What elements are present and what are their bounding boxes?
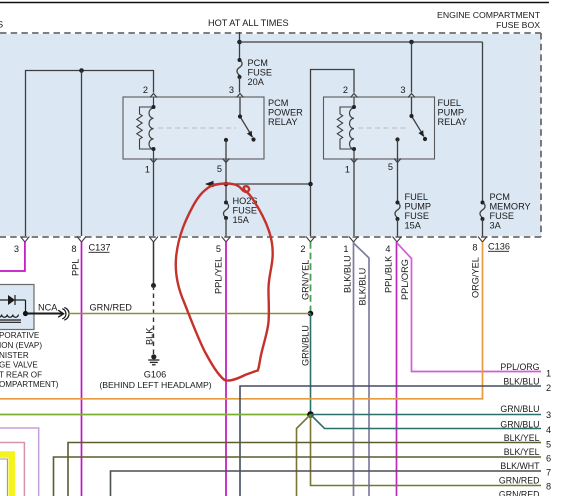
wire violet elbow lower left (0, 428, 39, 496)
wire BLK/YEL row 6 (54, 457, 542, 496)
svg-text:5: 5 (388, 162, 393, 172)
svg-text:8: 8 (472, 243, 477, 253)
svg-text:ORG/YEL: ORG/YEL (471, 257, 481, 298)
wire GRN/RED to EVAP junction (68, 313, 311, 315)
node: main junction (307, 411, 314, 418)
svg-text:15A: 15A (405, 221, 422, 231)
svg-text:NISTER: NISTER (0, 351, 29, 360)
svg-text:1: 1 (345, 165, 350, 175)
svg-text:BLK/BLU: BLK/BLU (343, 255, 353, 293)
svg-text:GRN/BLU: GRN/BLU (500, 420, 539, 430)
pin labels C137 row (14, 244, 221, 254)
svg-text:BLK/BLU: BLK/BLU (358, 268, 368, 306)
diode in purge valve (0, 295, 26, 314)
svg-text:PUMP: PUMP (405, 202, 432, 212)
wire: feed to PCM memory fuse (482, 42, 484, 203)
relay linkage dashed PCM (158, 127, 236, 129)
hot at all times bus line (0, 2, 549, 4)
connector C137 (89, 243, 111, 253)
svg-text:PCM: PCM (268, 98, 288, 108)
svg-text:2: 2 (343, 85, 348, 95)
svg-text:2: 2 (300, 244, 305, 254)
svg-text:5: 5 (217, 164, 222, 174)
evap purge valve caption (0, 331, 59, 389)
wire GRN/YEL dashed C136 pin 2 (310, 242, 312, 314)
pin 5 chevron PCM relay (223, 159, 230, 163)
svg-text:BLK/YEL: BLK/YEL (504, 433, 540, 443)
svg-text:6: 6 (546, 454, 551, 464)
wire: PCM relay pin 5 drop (225, 140, 227, 159)
wire: PCM fuse to relay pin 3 (239, 77, 241, 93)
wire BLK/YEL row 5 (68, 443, 541, 496)
svg-text:FUEL: FUEL (405, 192, 429, 202)
svg-text:8: 8 (71, 244, 76, 254)
svg-text:BLK/YEL: BLK/YEL (504, 447, 540, 457)
fuse PCM MEMORY FUSE 3A (480, 203, 485, 219)
svg-text:PUMP: PUMP (438, 108, 465, 118)
wire: fuel pump fuse to C136 pin 4 (397, 219, 399, 237)
wire: top feed rail to fuel pump relay and memory fuse (240, 41, 483, 43)
node: HO2S branch (224, 182, 229, 187)
label FUEL PUMP FUSE 15A (405, 192, 432, 231)
wire: PCM relay pin 5 to HO2S fuse node (225, 159, 227, 203)
node: BLK splice (151, 283, 156, 288)
node: feed tee (237, 40, 242, 45)
wire PPL/BLK C136 pin 4 (396, 242, 398, 496)
resistor parallel with PCM relay coil (137, 107, 154, 149)
svg-text:PPL/BLK: PPL/BLK (384, 255, 394, 293)
svg-text:15A: 15A (233, 215, 250, 225)
svg-text:(BEHIND LEFT HEADLAMP): (BEHIND LEFT HEADLAMP) (99, 380, 211, 390)
wire PPL C137 pin 8 (81, 242, 83, 496)
svg-text:7: 7 (546, 468, 551, 478)
svg-text:FUSE: FUSE (490, 211, 515, 221)
svg-text:FUSE: FUSE (405, 211, 430, 221)
wire: PCM relay pin 1 to C137 BLK (153, 159, 155, 236)
hand-drawn red circle highlight (176, 184, 273, 381)
connector arcs (62, 308, 69, 321)
wire BLK/BLU C136 pin 1 (353, 242, 355, 496)
wire BLK dashed to ground (153, 286, 155, 355)
wire: right loop fuel pump relay pin 2 to C136 pin 2 (311, 70, 355, 237)
wire BLK from C137 (153, 242, 155, 286)
label PCM POWER RELAY (268, 98, 303, 127)
wire GRN/BLU row 4 (311, 415, 542, 429)
svg-text:S: S (0, 20, 3, 30)
node: fuel pump relay feed tee (409, 40, 414, 45)
wire: feed from bus to PCM fuse (239, 32, 241, 60)
svg-text:C137: C137 (89, 243, 111, 253)
wire: feed to fuel pump relay pin 3 (411, 42, 413, 93)
wire yellow highlighted thick (0, 455, 12, 496)
wire ORG/YEL C136 pin 8 to left edge (0, 242, 483, 399)
relay linkage dashed fuel pump (358, 127, 408, 129)
connector chevrons at fuse box bottom border (20, 237, 487, 243)
pin 3 chevron fuel pump relay (408, 94, 415, 98)
svg-text:ENGINE COMPARTMENT: ENGINE COMPARTMENT (437, 10, 541, 20)
wire GRN/RED row 8 (311, 415, 542, 486)
wire pink elbow lower left (0, 443, 24, 496)
svg-text:5: 5 (216, 244, 221, 254)
svg-text:3: 3 (400, 85, 405, 95)
pin 1 chevron PCM relay (150, 159, 157, 163)
svg-text:MEMORY: MEMORY (490, 202, 531, 212)
wire: drop to C137 pin 8 (81, 71, 83, 237)
wire olive branch down-left (297, 415, 311, 496)
wire: fuel pump relay pin 5 to fuel pump fuse (397, 159, 399, 203)
right side pin numbers (546, 369, 551, 492)
op FUEL PUMP RELAY box (324, 97, 435, 159)
wire: fuel pump relay pin 1 to C136 pin 1 (353, 159, 355, 236)
svg-text:HOT AT ALL TIMES: HOT AT ALL TIMES (208, 18, 289, 28)
svg-text:PCM: PCM (248, 58, 268, 68)
relay switch fuel pump (412, 97, 425, 137)
svg-text:POWER: POWER (268, 108, 303, 118)
wire: branch to fuel pump relay coil feed (206, 183, 311, 185)
svg-text:C136: C136 (488, 242, 510, 252)
svg-text:GRN/BLU: GRN/BLU (301, 325, 311, 366)
wire GRN horizontal into main junction (0, 414, 311, 416)
svg-text:PPL/YEL: PPL/YEL (214, 257, 224, 294)
svg-text:PPL/ORG: PPL/ORG (500, 362, 539, 372)
svg-text:4: 4 (546, 425, 551, 435)
label HO2S FUSE 15A (233, 196, 258, 225)
svg-text:20A: 20A (248, 77, 265, 87)
ground G106 (148, 354, 159, 365)
wire PPL C137 pin 3 elbow to left edge (0, 242, 25, 271)
pin 1 chevron fuel pump relay (351, 159, 358, 163)
svg-text:FUSE: FUSE (233, 206, 258, 216)
svg-text:ION (EVAP): ION (EVAP) (0, 341, 42, 350)
fuse box dashed border (0, 33, 541, 237)
svg-text:3: 3 (14, 244, 19, 254)
label PCM FUSE 20A (248, 58, 273, 87)
wire GRN/BLU row 3 (311, 414, 542, 416)
svg-text:1: 1 (343, 244, 348, 254)
svg-text:PPL: PPL (71, 259, 81, 276)
svg-text:GRN/RED: GRN/RED (499, 476, 540, 486)
solenoid coil in purge valve (0, 315, 21, 323)
wire: left loop pin2 PCM relay to C137 pins 3 and 8 (26, 71, 154, 237)
svg-text:PCM: PCM (490, 192, 510, 202)
svg-text:T REAR OF: T REAR OF (0, 370, 42, 379)
svg-text:NCA: NCA (38, 303, 58, 313)
svg-text:8: 8 (546, 482, 551, 492)
wire BLK/WHT row 7 (111, 471, 542, 496)
relay coil fuel pump (inductor) (350, 97, 355, 159)
svg-text:RELAY: RELAY (438, 117, 467, 127)
wire BLK/BLU branch diagonal (354, 243, 370, 496)
relay coil PCM (inductor) (149, 97, 154, 159)
arrowhead off-page left (205, 181, 214, 188)
svg-text:3: 3 (546, 410, 551, 420)
svg-text:2: 2 (143, 85, 148, 95)
node inside purge valve (23, 311, 28, 316)
wire: memory fuse to C136 pin 8 (482, 219, 484, 237)
resistor parallel with fuel pump relay coil (337, 107, 354, 149)
svg-text:1: 1 (546, 369, 551, 379)
pin 2 chevron fuel pump relay (351, 94, 358, 98)
svg-text:PORATIVE: PORATIVE (0, 331, 40, 340)
label FUEL PUMP RELAY (438, 98, 467, 127)
svg-text:GRN/RED: GRN/RED (90, 303, 133, 313)
svg-text:OMPARTMENT): OMPARTMENT) (0, 380, 59, 389)
node: coil feed junction (308, 182, 313, 187)
pin labels C136 row (300, 243, 477, 255)
svg-text:RELAY: RELAY (268, 117, 297, 127)
node: EVAP junction (308, 311, 314, 317)
svg-text:5: 5 (546, 440, 551, 450)
fuse PCM FUSE 20A (237, 60, 242, 76)
right side wire labels (499, 362, 540, 496)
label ENGINE COMPARTMENT FUSE BOX (437, 10, 541, 30)
node: tee to C137 pin 8 (79, 68, 84, 73)
relay switch PCM (240, 97, 253, 137)
svg-text:GRN/RED: GRN/RED (499, 490, 540, 496)
svg-text:BLK/BLU: BLK/BLU (503, 377, 539, 387)
svg-text:GRN/YEL: GRN/YEL (301, 260, 311, 300)
svg-text:BLK: BLK (145, 327, 155, 345)
svg-text:PPL/ORG: PPL/ORG (400, 259, 410, 300)
svg-text:BLK/WHT: BLK/WHT (500, 461, 540, 471)
pin 2 chevron PCM relay (150, 94, 157, 98)
wire: fuel pump relay pin 5 drop (397, 140, 399, 160)
evap purge valve box (0, 285, 34, 330)
label PCM MEMORY FUSE 3A (490, 192, 531, 231)
wire gray under yellow (0, 459, 7, 496)
pin 5 chevron fuel pump relay (394, 159, 401, 163)
connector C136 (488, 242, 510, 252)
engine compartment fuse box region (0, 34, 541, 236)
svg-text:1: 1 (145, 165, 150, 175)
wire PPL/YEL C137 pin 5 (225, 242, 227, 496)
wire NCA from purge valve (26, 312, 64, 314)
svg-text:2: 2 (546, 383, 551, 393)
svg-text:3: 3 (229, 85, 234, 95)
wire PPL/ORG branch to right pin 1 (397, 243, 541, 372)
pin 3 chevron PCM relay (237, 94, 244, 98)
svg-text:FUSE: FUSE (248, 68, 273, 78)
wire: HO2S fuse to C137 pin 5 (225, 218, 227, 237)
svg-text:3A: 3A (490, 221, 502, 231)
wire GRN/BLU from EVAP junction down (310, 314, 312, 415)
svg-text:4: 4 (385, 244, 390, 254)
svg-text:FUEL: FUEL (438, 98, 462, 108)
fuse FUEL PUMP FUSE 15A (395, 203, 400, 219)
svg-text:GRN/BLU: GRN/BLU (500, 404, 539, 414)
wire BLK/BLU row 2 from bottom edge (240, 386, 541, 496)
op PCM POWER RELAY box (123, 97, 264, 159)
svg-text:FUSE BOX: FUSE BOX (496, 20, 540, 30)
svg-text:GE VALVE: GE VALVE (0, 361, 38, 370)
fuse HO2S FUSE 15A (223, 203, 228, 219)
svg-text:G106: G106 (144, 370, 166, 380)
